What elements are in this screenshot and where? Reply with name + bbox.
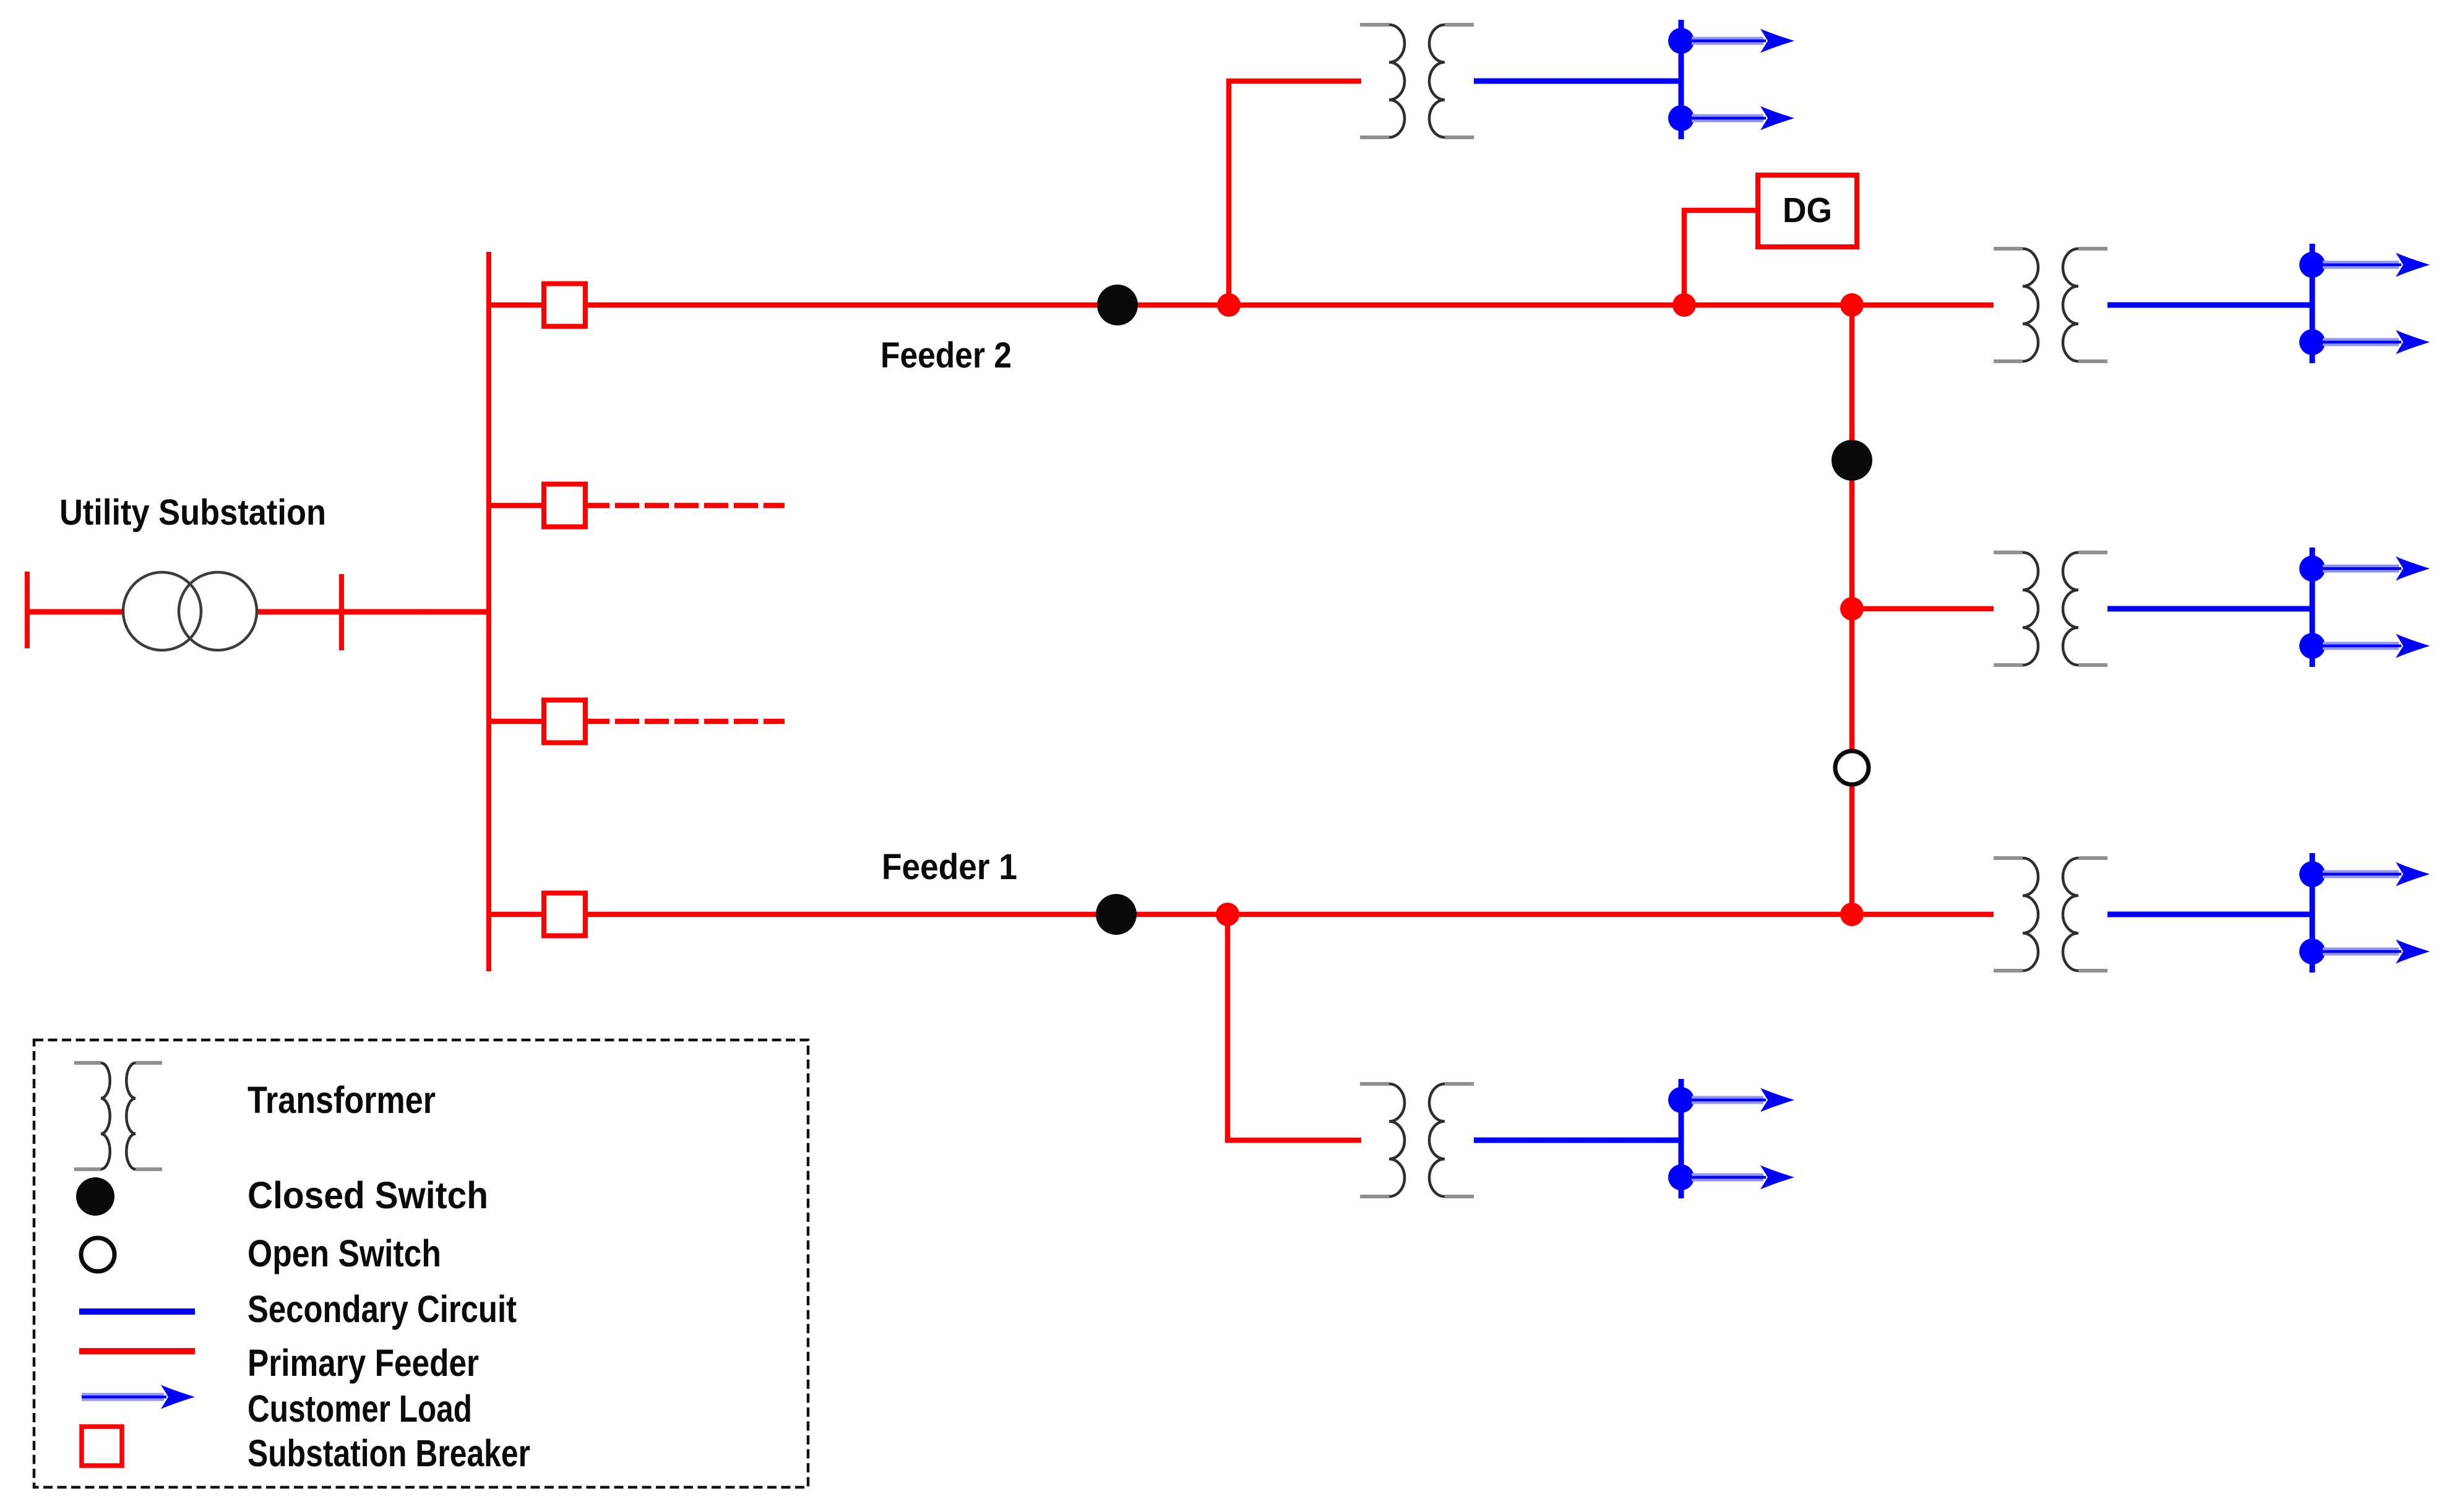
- node tie top: [1840, 293, 1864, 317]
- svg-text:Secondary Circuit: Secondary Circuit: [247, 1288, 517, 1330]
- customer load arrow G5-lower: [2323, 940, 2430, 964]
- closed switch on feeder 2: [1097, 285, 1138, 325]
- utility substation transformer circles: [123, 572, 257, 650]
- wire secondary T4: [1474, 1138, 1681, 1143]
- node tie bottom: [1840, 903, 1864, 926]
- secondary bus node G5: [2310, 853, 2315, 973]
- customer load arrow G4-upper: [1692, 1088, 1794, 1112]
- svg-text:Utility Substation: Utility Substation: [59, 492, 326, 533]
- wire DG connection: [1684, 210, 1763, 305]
- DG distributed generator box: [1758, 175, 1857, 247]
- load tap dot G4-upper: [1668, 1087, 1694, 1113]
- substation breaker CB feeder1: [544, 893, 585, 936]
- legend box: [34, 1040, 808, 1487]
- transformer T5: [1994, 858, 2107, 971]
- wire secondary T5: [2107, 912, 2312, 917]
- customer load arrow G2-upper: [2323, 253, 2430, 277]
- node DG tap: [1672, 293, 1696, 317]
- wire stub branch upper: [486, 503, 544, 509]
- customer load arrow G5-upper: [2323, 862, 2430, 887]
- open switch on tie: [1835, 751, 1869, 784]
- svg-text:Feeder 2: Feeder 2: [880, 335, 1012, 376]
- legend primary feeder symbol: [79, 1348, 195, 1354]
- legend transformer symbol: [74, 1063, 162, 1169]
- svg-text:Closed Switch: Closed Switch: [247, 1174, 488, 1216]
- wire riser feeder1-to-T4: [1228, 914, 1361, 1140]
- load tap dot G2-upper: [2299, 252, 2325, 278]
- load tap dot G5-upper: [2299, 861, 2325, 887]
- customer load arrow G3-lower: [2323, 634, 2430, 658]
- legend substation breaker symbol: [82, 1427, 122, 1466]
- customer load arrow G2-lower: [2323, 330, 2430, 354]
- closed switch on feeder 1: [1096, 894, 1137, 935]
- customer load arrow G4-lower: [1692, 1166, 1794, 1190]
- customer load arrow G1-lower: [1692, 106, 1794, 131]
- wire tie feeder2-feeder1: [1849, 305, 1855, 914]
- wire stub branch lower dashed: [585, 719, 785, 724]
- secondary bus node G3: [2310, 548, 2315, 667]
- wire feeder 2: [486, 303, 1994, 308]
- secondary bus node G4: [1679, 1079, 1684, 1198]
- legend customer load arrow: [82, 1385, 195, 1409]
- substation breaker CB spare lower: [544, 700, 585, 743]
- node riser-T4 on feeder1: [1216, 903, 1239, 926]
- substation left terminal tick: [25, 572, 30, 648]
- load tap dot G1-upper: [1668, 28, 1694, 54]
- load tap dot G5-lower: [2299, 939, 2325, 964]
- secondary bus node G2: [2310, 244, 2315, 363]
- legend closed switch symbol: [76, 1177, 114, 1216]
- svg-text:DG: DG: [1783, 191, 1832, 230]
- load tap dot G3-lower: [2299, 633, 2325, 659]
- wire tie-to-T3: [1852, 606, 1994, 612]
- load tap dot G3-upper: [2299, 556, 2325, 582]
- load tap dot G2-lower: [2299, 329, 2325, 355]
- secondary bus node G1: [1679, 20, 1684, 139]
- legend open switch symbol: [81, 1238, 114, 1271]
- wire feeder 1: [486, 912, 1994, 917]
- node riser-T1 on feeder2: [1217, 293, 1241, 317]
- svg-text:Open Switch: Open Switch: [247, 1232, 441, 1274]
- substation bus: [486, 252, 491, 971]
- node T3 tap: [1840, 597, 1864, 621]
- transformer T4: [1360, 1084, 1474, 1196]
- closed switch on tie: [1831, 440, 1872, 481]
- wire riser feeder2-to-T1: [1229, 81, 1361, 305]
- svg-text:Customer Load: Customer Load: [247, 1388, 472, 1430]
- wire stub branch upper dashed: [585, 503, 785, 509]
- substation breaker CB spare upper: [544, 484, 585, 527]
- wire secondary T1: [1474, 79, 1681, 84]
- wire stub branch lower: [486, 719, 544, 724]
- transformer T1: [1360, 25, 1474, 137]
- transformer T3: [1994, 552, 2107, 665]
- wire substation-to-bus: [27, 609, 489, 615]
- svg-text:Primary Feeder: Primary Feeder: [247, 1342, 479, 1384]
- customer load arrow G1-upper: [1692, 29, 1794, 53]
- wire secondary T2: [2107, 303, 2312, 308]
- svg-text:Substation Breaker: Substation Breaker: [247, 1432, 530, 1474]
- load tap dot G1-lower: [1668, 105, 1694, 131]
- svg-text:Feeder 1: Feeder 1: [882, 847, 1017, 887]
- load tap dot G4-lower: [1668, 1164, 1694, 1190]
- substation breaker CB feeder2: [544, 284, 585, 327]
- substation mid tick: [339, 574, 344, 650]
- svg-text:Transformer: Transformer: [247, 1079, 436, 1121]
- customer load arrow G3-upper: [2323, 557, 2430, 581]
- wire secondary T3: [2107, 606, 2312, 612]
- transformer T2: [1994, 249, 2107, 361]
- legend secondary circuit symbol: [79, 1308, 195, 1315]
